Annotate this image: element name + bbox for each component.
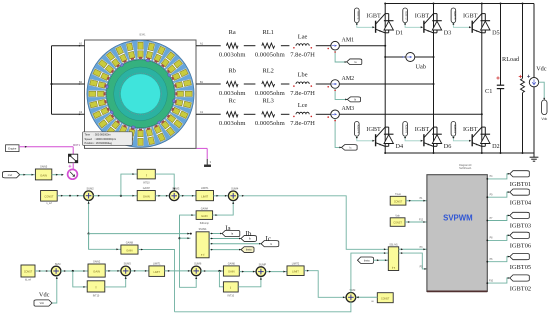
wire CONST4 to SVPWM P1 <box>406 200 427 202</box>
diode D1 <box>384 14 403 37</box>
gate signal label IGBT4 <box>355 122 361 137</box>
wire CONST2 to summer S4 <box>35 270 51 272</box>
motor block MOT1 <box>85 33 197 149</box>
gain G5 <box>88 261 105 278</box>
svg-text:Ic: Ic <box>266 235 271 243</box>
svg-text:SUM2: SUM2 <box>86 187 94 191</box>
diode D3 <box>432 14 451 37</box>
svg-text:IGBT02: IGBT02 <box>510 285 531 292</box>
svg-text:Lbe: Lbe <box>298 72 308 79</box>
svg-text:0.0005ohm: 0.0005ohm <box>255 52 286 59</box>
const CONST4 (carrier) <box>390 193 406 205</box>
wire theta to T2 <box>374 259 389 261</box>
svg-text:IGBT: IGBT <box>415 13 430 20</box>
transistor IGBT (Q4) <box>415 126 434 146</box>
svg-text:IGBT: IGBT <box>463 13 478 20</box>
resistor RL2 0.0005ohm <box>255 67 286 97</box>
wire LIMIT1 to summer S3 <box>214 195 229 197</box>
wire gate IGBT5 to transistor <box>453 23 472 29</box>
svg-text:IGBT05: IGBT05 <box>510 264 531 271</box>
svg-text:D1: D1 <box>396 30 404 37</box>
svg-text:SUM4: SUM4 <box>231 187 239 191</box>
svg-text:IGBT2: IGBT2 <box>453 125 457 134</box>
svg-text:AM1: AM1 <box>342 38 355 44</box>
limiter LIMIT1 <box>196 187 214 201</box>
const CONST5 <box>390 215 405 226</box>
summer S1 (speed error) <box>84 191 94 201</box>
wire gate IGBT1 to transistor <box>356 23 375 29</box>
svg-text:Time : 500.900000m: Time : 500.900000m <box>85 133 111 137</box>
wire gate IGBT3 to transistor <box>404 23 423 29</box>
wire G3 out to S3 <box>213 201 235 216</box>
gain G3 IfdComp <box>196 207 213 225</box>
gate signal label IGBT3 <box>403 8 409 23</box>
svg-text:C1: C1 <box>485 88 492 95</box>
wire phase C from motor to bridge <box>196 113 221 115</box>
svg-text:n_ref: n_ref <box>46 202 52 205</box>
svg-text:Rc: Rc <box>229 98 236 105</box>
svg-text:AM3: AM3 <box>342 106 355 112</box>
svg-text:Vdc: Vdc <box>39 292 50 299</box>
gate signal label IGBT1 <box>355 8 361 23</box>
svg-text:I: I <box>230 286 231 290</box>
svg-text:Vdc: Vdc <box>541 117 547 121</box>
node label theta (T2 input) <box>358 257 374 263</box>
wire CONST5 to SVPWM P12 <box>405 221 427 223</box>
svg-text:LIMIT1: LIMIT1 <box>201 187 209 190</box>
svg-text:Ia: Ia <box>225 224 231 232</box>
engine block <box>6 145 19 152</box>
node label nref <box>3 172 20 178</box>
mechanical ground <box>204 165 210 167</box>
svg-text:Position : 18.810000deg: Position : 18.810000deg <box>85 141 113 145</box>
wire DC+ top bus <box>385 3 534 5</box>
gain G4 (wL) <box>121 242 138 255</box>
wire w trunk to transform T1 pin1 <box>89 233 192 235</box>
svg-text:GAIN: GAIN <box>93 269 100 273</box>
svg-text:Engine: Engine <box>8 147 17 151</box>
diode D4 <box>384 127 403 150</box>
svg-text:IGBT03: IGBT03 <box>510 223 531 230</box>
resistor RL3 0.0005ohm <box>255 98 286 128</box>
svg-text:RL1: RL1 <box>263 29 274 36</box>
wire SVPWM P10 to IGBT02 <box>486 277 510 284</box>
wire G6 to S7 <box>239 271 256 273</box>
wire gate IGBT4 to transistor <box>356 136 375 142</box>
transform block T1 (abc to dq) <box>196 229 209 258</box>
svg-text:0.003ohm: 0.003ohm <box>219 120 246 127</box>
speed sensor W1 <box>68 169 78 179</box>
wire converter to speed sensor <box>69 163 74 170</box>
summer S3 <box>228 191 238 201</box>
node label IGBT06 <box>510 232 531 249</box>
svg-text:GAIN6: GAIN6 <box>228 262 236 265</box>
svg-text:Ib: Ib <box>246 230 252 238</box>
svg-text:IGBT5: IGBT5 <box>453 11 457 20</box>
wire nref to gain <box>20 174 35 176</box>
node label Ic <box>261 235 279 247</box>
transistor IGBT (Q3) <box>415 13 434 33</box>
wire CONST1 to sum S1 <box>57 195 83 197</box>
svg-text:GAIN: GAIN <box>40 173 47 177</box>
svg-text:D5: D5 <box>492 30 500 37</box>
resistor Rc 0.003ohm <box>219 98 246 128</box>
svg-text:SVPWM: SVPWM <box>443 213 472 222</box>
wire SVPWM P6 to IGBT05 <box>486 256 510 263</box>
wire inverter leg A <box>384 4 386 154</box>
wire phase B from motor to bridge <box>196 83 221 85</box>
svg-text:IGBT: IGBT <box>463 126 478 133</box>
node label Ia <box>347 59 362 65</box>
node label Ib <box>241 230 256 241</box>
wire theta tap to T1 pin2 <box>180 237 191 239</box>
svg-text:P10: P10 <box>489 280 494 282</box>
wire S2 to LIMIT1 <box>179 195 196 197</box>
svg-text:GAIN4: GAIN4 <box>201 207 209 210</box>
svg-text:Uab: Uab <box>395 215 400 217</box>
gain G6 <box>223 262 239 276</box>
ammeter AM2 <box>327 76 354 88</box>
const CONST1 (speed ref) <box>41 191 58 205</box>
svg-text:GAIN: GAIN <box>228 270 235 274</box>
wire T1 to Ic label <box>209 243 261 245</box>
wire gain G1 output <box>52 174 64 176</box>
transistor IGBT (Q1) <box>366 13 385 33</box>
svg-text:0.0005ohm: 0.0005ohm <box>255 90 286 97</box>
wire S8 down to theta bus <box>175 302 351 312</box>
integrator I2 <box>87 281 105 298</box>
svg-text:IGBT04: IGBT04 <box>510 199 532 206</box>
svg-text:SSL-M1: SSL-M1 <box>389 244 398 246</box>
svg-text:IfdComp: IfdComp <box>200 222 210 225</box>
svg-text:RL2: RL2 <box>263 67 274 74</box>
limiter LIMIT2 <box>149 262 165 276</box>
svg-text:SUM6: SUM6 <box>194 262 202 266</box>
diode D2 <box>481 127 500 150</box>
node label IGBT05 <box>510 254 531 271</box>
summer S8 <box>346 293 356 303</box>
inductor Lbe 7.8e-07H <box>290 72 315 97</box>
svg-text:GAIN: GAIN <box>126 248 132 252</box>
svg-text:MOT1: MOT1 <box>73 144 81 147</box>
wire T1 to Ib label <box>209 238 241 240</box>
wire gate IGBT2 to transistor <box>453 136 472 142</box>
wire I3 to S7 <box>238 277 262 287</box>
wire AM3 sensor output to label <box>334 119 341 149</box>
svg-text:GAIN: GAIN <box>201 214 207 218</box>
wire S4 out / split to I2 <box>61 270 88 288</box>
gate signal label IGBT6 <box>403 122 409 137</box>
wire star-point bracket (A2-B2-C2 short) <box>50 45 84 115</box>
ground (DC bus) <box>530 153 539 161</box>
wire S6 out / split to I3 <box>201 270 223 287</box>
wire S3 (Uq) to transform T2 <box>238 195 388 250</box>
svg-text:SSCM1: SSCM1 <box>199 229 208 231</box>
svg-text:Rb: Rb <box>228 67 235 74</box>
svg-text:0.003ohm: 0.003ohm <box>219 52 246 59</box>
limiter LIMIT3 <box>287 262 304 275</box>
wire T2 Ubeta to SVPWM P5 <box>399 252 427 270</box>
svg-text:D2: D2 <box>492 143 500 150</box>
wire DC- bottom bus <box>385 152 534 154</box>
svg-text:theta: theta <box>246 249 252 252</box>
node label IGBT03 <box>510 212 531 229</box>
svg-text:GAIN: GAIN <box>143 194 150 198</box>
svg-text:GAIN8: GAIN8 <box>126 242 134 245</box>
wire I1 to summer S2 <box>155 174 175 191</box>
wire S1 out to PI split <box>93 173 137 197</box>
svg-text:I: I <box>96 285 97 289</box>
inductor Lae 7.8e-07H <box>290 33 315 58</box>
wire T1 to theta label <box>209 249 241 251</box>
svg-text:SUM5: SUM5 <box>124 262 132 266</box>
svg-text:B341: B341 <box>139 33 146 37</box>
svg-text:IGBT06: IGBT06 <box>510 243 531 250</box>
svg-text:LIMIT2: LIMIT2 <box>292 262 300 265</box>
svg-text:INT10: INT10 <box>93 294 100 297</box>
svg-text:Lae: Lae <box>298 33 308 40</box>
transistor IGBT (Q6) <box>463 126 482 146</box>
svg-text:Tzero: Tzero <box>395 193 402 196</box>
svg-text:RL3: RL3 <box>263 98 274 105</box>
wire shaft down to converter <box>72 147 74 154</box>
svg-text:Uab: Uab <box>416 63 427 70</box>
svg-text:CONST: CONST <box>381 297 390 300</box>
transform block T2 (dq to ab) <box>388 244 398 270</box>
wire S5 to LIMIT2 <box>131 270 149 272</box>
const CONST2 (Id ref) <box>21 265 35 282</box>
svg-text:IGBT: IGBT <box>366 126 381 133</box>
wire CONST3 to S8 <box>356 296 378 298</box>
wire SVPWM P4 to IGBT01 <box>486 173 510 180</box>
node label IGBT04 <box>510 189 532 206</box>
summer S4 <box>51 266 61 276</box>
svg-text:Vdc: Vdc <box>40 302 45 305</box>
node label Ic <box>342 145 358 151</box>
motor runtime info overlay <box>83 132 133 146</box>
voltage source Vdc <box>527 4 547 154</box>
mech-elec interface block <box>69 154 78 163</box>
svg-text:theta: theta <box>364 259 370 262</box>
svg-text:IGBT01: IGBT01 <box>510 181 531 188</box>
svg-text:7.8e-07H: 7.8e-07H <box>290 90 315 97</box>
wire Vdc label to S4 <box>52 276 58 303</box>
svg-text:7.8e-07H: 7.8e-07H <box>290 120 315 127</box>
svg-text:CONST: CONST <box>24 271 33 274</box>
svg-text:LIMIT: LIMIT <box>154 271 161 274</box>
node label Ib <box>347 97 360 102</box>
wire w trunk down to gain G4 <box>89 234 121 251</box>
inductor Lce 7.8e-07H <box>290 102 315 127</box>
gate signal label IGBT5 <box>451 8 457 23</box>
wire Iq trunk to G3 input <box>180 214 197 238</box>
svg-text:SUMP: SUMP <box>259 262 267 266</box>
wire G5 to S5 <box>105 270 121 272</box>
svg-text:IGBT: IGBT <box>366 13 381 20</box>
wire engine shaft to MOT1 <box>19 146 73 148</box>
const CONST3 <box>371 293 393 303</box>
svg-text:GAIN5: GAIN5 <box>40 166 48 169</box>
wire speed feedback into S1 / down trunk <box>88 201 90 250</box>
wire phase A from motor to bridge <box>196 45 221 47</box>
gain G2 (speed Kp) <box>137 187 155 201</box>
wire SVPWM P7 to IGBT03 <box>486 214 510 221</box>
wire S7 to LIMIT3 <box>266 271 287 273</box>
wire inverter leg B <box>433 4 435 154</box>
svg-text:Lce: Lce <box>298 102 308 109</box>
svg-text:0.003ohm: 0.003ohm <box>219 90 246 97</box>
svg-text:LIMIT: LIMIT <box>292 269 299 273</box>
wire inverter leg C <box>481 4 483 154</box>
svg-text:7.8e-07H: 7.8e-07H <box>290 52 315 59</box>
ammeter AM1 <box>327 38 354 51</box>
wire gate IGBT6 to transistor <box>404 136 423 142</box>
gate signal label IGBT2 <box>451 122 457 137</box>
svg-text:SUM3: SUM3 <box>172 187 180 191</box>
svg-text:Vdc: Vdc <box>536 66 547 73</box>
svg-text:Speed : 10000.000000rpm: Speed : 10000.000000rpm <box>85 137 117 141</box>
node label Vdc <box>34 292 52 306</box>
svg-text:RLoad: RLoad <box>502 56 520 63</box>
resistor RL1 0.0005ohm <box>255 29 286 59</box>
node label theta <box>241 247 254 253</box>
ammeter AM3 <box>327 106 354 119</box>
wire T1 to Ia label <box>209 233 222 235</box>
wire S8 up to transform T2 pin2 <box>351 252 388 292</box>
svg-text:LIMIT: LIMIT <box>201 194 208 198</box>
svg-text:Ra: Ra <box>229 29 236 36</box>
wire G2 to S2 <box>155 195 169 197</box>
svg-text:Id_ref: Id_ref <box>25 279 31 282</box>
wire LIMIT2 to summer S6 <box>165 270 192 272</box>
voltmeter Uab <box>384 53 434 71</box>
node label IGBT02 <box>510 275 531 292</box>
diode D6 <box>432 127 451 150</box>
svg-text:INT10: INT10 <box>143 182 150 185</box>
wire T2 Ualpha to SVPWM P3 <box>399 248 427 250</box>
svg-text:CONST: CONST <box>44 194 53 198</box>
svg-text:GAIN7: GAIN7 <box>143 187 151 190</box>
wire LIMIT3 to summer S8 <box>304 270 346 298</box>
integrator I1 <box>137 169 155 184</box>
resistor RLoad <box>502 3 525 155</box>
svg-text:D6: D6 <box>444 143 452 150</box>
svg-text:CONST: CONST <box>393 222 402 225</box>
wire SVPWM P8 to IGBT06 <box>486 234 510 241</box>
transistor IGBT (Q5) <box>463 13 482 33</box>
svg-text:AM2: AM2 <box>342 76 355 82</box>
wire Vdc sensor to label <box>539 82 545 100</box>
svg-text:nref: nref <box>8 174 13 177</box>
wire AM1 sensor output to label <box>334 50 347 63</box>
summer S6 <box>191 266 201 276</box>
svg-text:0.0005ohm: 0.0005ohm <box>255 120 286 127</box>
svg-text:IGBT: IGBT <box>415 126 430 133</box>
wire motor shaft 2 to mech ground <box>197 148 212 164</box>
svg-text:P12: P12 <box>419 220 424 222</box>
transistor IGBT (Q2) <box>366 126 385 146</box>
svg-text:D3: D3 <box>444 30 452 37</box>
integrator I3 <box>223 282 238 298</box>
svg-text:SUM: SUM <box>55 262 61 266</box>
svg-text:IGBT4: IGBT4 <box>356 125 360 134</box>
resistor Ra 0.003ohm <box>219 29 246 59</box>
gain G1 (rpm conv) <box>35 166 51 180</box>
svg-text:LIMIT1: LIMIT1 <box>153 262 161 265</box>
node label Ia <box>222 224 240 236</box>
summer S7 <box>256 267 266 277</box>
summer S5 <box>121 266 131 276</box>
wire I2 to S5 <box>105 276 127 287</box>
svg-text:IGBT1: IGBT1 <box>356 11 360 20</box>
resistor Rb 0.003ohm <box>219 67 246 97</box>
svg-text:CONST: CONST <box>394 200 403 203</box>
wire Iq trunk vertical <box>178 215 197 287</box>
svg-text:IGBT6: IGBT6 <box>405 125 409 134</box>
svg-text:I: I <box>146 174 147 178</box>
svg-text:GAIN2: GAIN2 <box>93 261 101 264</box>
node label Vdc (vertical) <box>541 100 547 121</box>
diode D5 <box>481 14 500 37</box>
wire SVPWM P9 to IGBT04 <box>486 191 510 198</box>
svg-text:SUM: SUM <box>350 288 356 292</box>
svg-text:D4: D4 <box>396 143 404 150</box>
subcircuit SVPWM U10 <box>419 164 487 291</box>
summer S2 <box>169 191 179 201</box>
svg-text:SubSheet1: SubSheet1 <box>459 167 472 170</box>
svg-text:IGBT3: IGBT3 <box>405 11 409 20</box>
svg-text:INT10: INT10 <box>228 295 235 298</box>
wire AM2 sensor output to label <box>334 88 347 100</box>
node label IGBT01 <box>510 171 531 188</box>
capacitor C1 <box>485 3 504 155</box>
wire G4 out down to theta bus <box>138 249 175 312</box>
